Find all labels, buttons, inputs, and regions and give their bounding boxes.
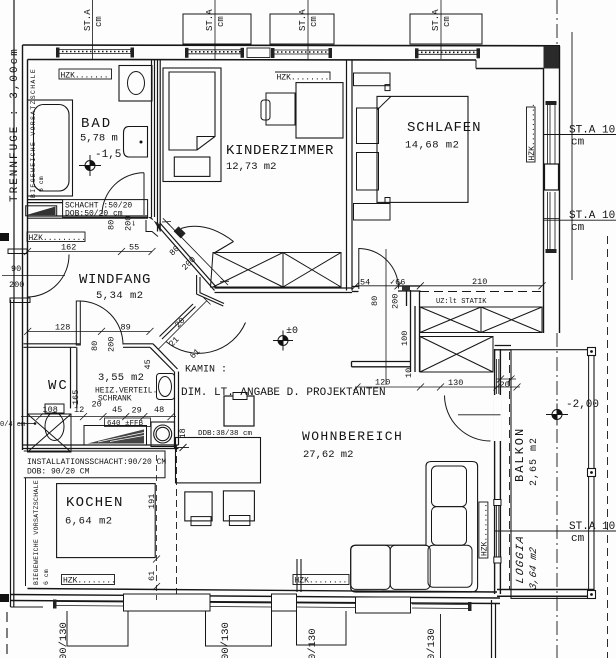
toilet WC (45, 404, 64, 441)
bottom roller box 3 (356, 597, 411, 613)
svg-text:12: 12 (74, 405, 84, 415)
svg-text:cm: cm (309, 16, 319, 27)
svg-text:100: 100 (400, 331, 410, 346)
svg-text:WC: WC (48, 378, 69, 394)
svg-text:HZK........: HZK........ (63, 577, 116, 586)
hatch wedge box near washer (84, 426, 147, 446)
svg-text:20: 20 (500, 380, 510, 390)
right outer wall upper column (544, 46, 560, 333)
svg-text:210: 210 (472, 277, 487, 287)
svg-text:89: 89 (121, 323, 131, 333)
left neighbour wall stub upper (8, 249, 27, 254)
washing machine (151, 422, 175, 447)
sofa cushion v1 (432, 466, 467, 507)
svg-text:0/130: 0/130 (307, 628, 319, 658)
Heiz east wall (175, 372, 179, 449)
dim diag line KZ door (162, 218, 229, 285)
svg-text:DOB: 90/20 CM: DOB: 90/20 CM (27, 468, 90, 477)
balcony rail post bottom (588, 591, 596, 599)
svg-text:cm: cm (442, 16, 452, 27)
svg-text:-1,5: -1,5 (95, 149, 121, 161)
svg-text:cm: cm (94, 16, 104, 27)
Windfang/WC wall west segment (24, 344, 81, 348)
svg-text:UZ:lt STATIK: UZ:lt STATIK (436, 298, 487, 306)
svg-text:61: 61 (147, 571, 157, 581)
hatch wedge box in BAD (26, 206, 57, 216)
balcony door leaf line (458, 414, 501, 416)
dresser Schlafen bottom (354, 198, 391, 221)
svg-text:3,55 m2: 3,55 m2 (98, 372, 144, 384)
vorsatzschale leaf kitchen (25, 478, 27, 586)
bottom wall window 3 (297, 603, 355, 608)
svg-text:45: 45 (112, 405, 122, 415)
svg-text:DIM. LT. ANGABE D. PROJEKTANTE: DIM. LT. ANGABE D. PROJEKTANTEN (181, 387, 386, 399)
svg-text:INSTALLATIONSSCHACHT:90/20 CM: INSTALLATIONSSCHACHT:90/20 CM (27, 458, 166, 467)
right margin dashed line (607, 236, 609, 658)
balcony door arc (445, 396, 491, 442)
svg-text:48: 48 (154, 405, 164, 415)
WC/Heiz wall (71, 347, 77, 408)
svg-text:90: 90 (11, 264, 21, 274)
svg-text:SCHRANK: SCHRANK (98, 395, 132, 404)
nightstand Schlafen lower (357, 153, 379, 191)
top axis box A (183, 14, 251, 44)
Kamin block (224, 396, 254, 426)
svg-text:27,62 m2: 27,62 m2 (303, 449, 353, 461)
left outer wall (23, 45, 28, 450)
balcony rail post mid (588, 469, 596, 477)
kitchen dim tick 2 (153, 583, 160, 590)
HZK radiator Schlafen (vertical) (527, 107, 536, 162)
bottom label line (440, 614, 442, 658)
diagonal wall to Heiz corner (150, 344, 178, 372)
right wall glazing above balcony door (496, 359, 498, 394)
sofa cushion h2 (390, 545, 430, 589)
svg-text:18: 18 (178, 428, 188, 438)
top outer wall (23, 45, 561, 69)
svg-text:3,64 m2: 3,64 m2 (529, 547, 540, 591)
bathtub (28, 100, 73, 196)
axis line window KZ2 (307, 0, 309, 59)
dining chair 1 (191, 517, 211, 526)
left neighbour wall stub lower (10, 298, 30, 303)
balcony rail post dots (590, 350, 593, 353)
dining chair 2 (229, 516, 250, 526)
toilet platform BAD (119, 66, 152, 102)
svg-text:0/4 cm: 0/4 cm (0, 421, 25, 429)
svg-text:SCHLAFEN: SCHLAFEN (407, 120, 481, 136)
svg-text:cm: cm (571, 137, 585, 149)
svg-text:120: 120 (375, 378, 390, 388)
svg-text:BIEGEWEICHE VORSATZSCHALE: BIEGEWEICHE VORSATZSCHALE (33, 480, 40, 585)
bottom-right descending wall (492, 600, 496, 658)
svg-text:0/130: 0/130 (426, 628, 438, 658)
svg-text:5,78 m: 5,78 m (80, 133, 118, 145)
corridor hatch band (211, 253, 342, 288)
Schlafen door arc (359, 249, 399, 289)
entry door dim line (2, 275, 65, 277)
svg-text:80: 80 (90, 341, 100, 351)
Kinderzimmer door leaf blob (174, 226, 186, 238)
Windfang north wall (28, 216, 149, 218)
svg-text:-2,00: -2,00 (566, 399, 599, 411)
bottom roller box 2 (272, 594, 297, 611)
svg-text:20: 20 (92, 400, 102, 410)
wall end step lines (146, 220, 158, 237)
wall segment mid (vert at 410) (407, 290, 420, 372)
balcony 20 tick (496, 376, 516, 383)
Windfang/WC wall east segment (123, 344, 153, 348)
diagonal wall NE of band (215, 242, 234, 253)
dining table 1 (185, 492, 212, 521)
top wall pier block between KZ windows (247, 48, 270, 58)
dim line WC row (21, 413, 176, 420)
dining table 2 (223, 491, 254, 521)
svg-text:HZK.........: HZK......... (29, 234, 87, 243)
svg-text:108: 108 (43, 405, 58, 415)
svg-text:HZK........: HZK........ (481, 503, 490, 556)
chair back Kinderzimmer (261, 100, 270, 120)
svg-text:80: 80 (107, 220, 117, 230)
dim dashed kitchen line (156, 455, 158, 600)
UZ hatch box 2 (420, 337, 493, 373)
Schlafen door post (402, 286, 410, 292)
toilet bowl BAD (128, 72, 145, 95)
desk Kinderzimmer (296, 83, 343, 138)
leader ST.A lower (495, 530, 616, 532)
wall horizontal at 364 (352, 362, 411, 367)
Kinderzimmer door arc (181, 226, 234, 241)
svg-text:✓66: ✓66 (390, 278, 405, 288)
svg-text:DDB:38/38 cm: DDB:38/38 cm (198, 430, 253, 438)
right wall window lower (544, 192, 560, 253)
BAD door arc (102, 173, 144, 214)
washbasin Heiz corner (157, 374, 175, 400)
Schlafen south wall west (352, 287, 359, 292)
balcony rail inner line (588, 350, 590, 599)
svg-text:ST.A 10: ST.A 10 (569, 125, 615, 137)
dresser Schlafen top (354, 73, 391, 91)
axis line window KZ1 (214, 0, 216, 59)
HZK radiator Kinderzimmer (275, 72, 330, 80)
svg-text:HZK.......: HZK....... (61, 72, 109, 81)
double bed Schlafen (377, 96, 468, 202)
svg-text:165: 165 (71, 390, 81, 405)
svg-text:LOGGIA: LOGGIA (515, 534, 527, 585)
svg-text:2,65 m2: 2,65 m2 (529, 437, 540, 486)
ST.A label top 2 (205, 9, 226, 31)
HZK radiator Wohnbereich right (vertical) (479, 502, 488, 558)
corridor diagonal wall (upper) (157, 223, 218, 291)
right margin solid line (571, 32, 573, 280)
svg-text:WINDFANG: WINDFANG (79, 272, 151, 288)
svg-text:29: 29 (132, 406, 142, 416)
svg-text:6 cm: 6 cm (38, 176, 45, 192)
svg-text:ST.A 10: ST.A 10 (569, 521, 615, 533)
bottom wall window 2 (210, 603, 271, 608)
BAD south wall (28, 200, 63, 203)
wall link to balcony slab (495, 346, 511, 350)
svg-text:200: 200 (9, 280, 24, 290)
island cross tick (177, 444, 189, 451)
svg-text:ST.A: ST.A (83, 9, 93, 31)
ST.A label top 1 (83, 9, 104, 31)
svg-text:KAMIN :: KAMIN : (185, 365, 227, 376)
wall stub right of kitchen (297, 559, 301, 592)
property line (Trennfuge) (13, 0, 15, 302)
wall below hatch band (215, 288, 353, 293)
svg-text:80: 80 (370, 296, 380, 306)
HZK radiator BAD (59, 69, 112, 79)
black joint tick (0, 233, 9, 241)
svg-text:KINDERZIMMER: KINDERZIMMER (226, 143, 334, 159)
black joint tick bottom (0, 594, 9, 602)
svg-text:DOB:50/20 cm: DOB:50/20 cm (65, 210, 123, 219)
svg-text:54: 54 (360, 278, 370, 288)
svg-text:6,64 m2: 6,64 m2 (65, 516, 113, 528)
svg-text:200: 200 (107, 337, 117, 352)
dim line 210 (420, 282, 545, 289)
WC shaft hatch box (28, 414, 72, 452)
level marker balcony (546, 404, 568, 426)
HZK radiator Kochen (62, 575, 115, 585)
bottom wall window kitchen (53, 600, 123, 609)
svg-text:BIEGEWEICHE-VORSATZSCHALE: BIEGEWEICHE-VORSATZSCHALE (30, 68, 37, 198)
dashed balcony front line (509, 352, 511, 589)
right wall pier block (545, 164, 559, 190)
HZK radiator Windfang (27, 232, 85, 242)
svg-text:±0: ±0 (286, 326, 298, 337)
UZ hatch box 1 (420, 307, 542, 333)
top axis box C (410, 14, 482, 44)
wall KINDERZIMMER/SCHLAFEN (347, 60, 353, 291)
bottom outer wall (11, 589, 501, 608)
Kamin top notch (233, 393, 247, 400)
HZK radiator Wohnbereich bottom (293, 575, 349, 585)
bottom hanging box 2 (206, 611, 272, 646)
svg-text:00/130: 00/130 (58, 622, 70, 658)
svg-text:HZK........: HZK........ (295, 577, 348, 586)
level marker BAD (79, 155, 101, 176)
Schacht box below BAD (63, 200, 148, 218)
svg-text:130: 130 (448, 378, 463, 388)
svg-text:ST.A: ST.A (205, 9, 215, 31)
Schlafen south wall east (398, 286, 421, 291)
svg-text:12,73 m2: 12,73 m2 (226, 161, 276, 173)
svg-text:BALKON: BALKON (513, 427, 527, 482)
right wall window lower part (494, 500, 501, 564)
svg-text:WOHNBEREICH: WOHNBEREICH (302, 429, 403, 444)
kitchen dim tick 1 (153, 556, 160, 563)
bottom hanging box 1 (67, 611, 128, 646)
kitchen room outline (57, 484, 156, 558)
svg-text:162: 162 (61, 243, 76, 253)
bottom hanging box 3 (297, 611, 347, 645)
bottom roller box 1 (124, 594, 211, 611)
svg-text:cm: cm (571, 222, 585, 234)
top-right corner block (544, 46, 560, 69)
corridor notch wall (197, 275, 224, 306)
kitchen divider dashed (176, 445, 178, 594)
sofa cushion v2 (432, 507, 467, 546)
balcony slab (511, 350, 594, 599)
lower left outer wall (10, 300, 12, 607)
right lower outer wall (Wohnbereich) (495, 349, 501, 594)
dim diag line lower door (155, 298, 211, 354)
bed Kinderzimmer (163, 68, 221, 182)
loggia bottom wall (497, 590, 594, 597)
svg-text:HZK........: HZK........ (277, 74, 330, 83)
svg-text:BAD: BAD (81, 116, 112, 132)
bottom wall window 4 (412, 602, 472, 611)
UZ statik dashed band (420, 292, 542, 308)
BAD door leaf (143, 173, 145, 215)
axis line window BAD (92, 0, 94, 59)
living room entry door leaf (160, 304, 196, 339)
balcony rail post top (588, 348, 596, 356)
Heiz/Kochen south wall (23, 445, 179, 449)
svg-text:6 cm: 6 cm (43, 569, 50, 585)
living room entry door arc (166, 323, 246, 354)
dim 640 FFB box (105, 418, 151, 427)
svg-text:cm: cm (571, 533, 585, 545)
ST.A label top 3 (298, 9, 319, 31)
installationsschacht box (24, 451, 165, 478)
sofa corner back (351, 462, 478, 593)
svg-text:14,68 m2: 14,68 m2 (405, 140, 459, 152)
right wall balcony door gap (494, 395, 502, 441)
dim line Windfang lower (24, 328, 153, 335)
top wall window BAD (56, 48, 134, 58)
Trennfuge dashes bottom (6, 612, 8, 658)
WC door leaf (76, 301, 80, 345)
top wall window SCHLAFEN (415, 48, 480, 58)
washbasin BAD (124, 127, 148, 158)
svg-text:cm: cm (216, 16, 226, 27)
svg-text:128: 128 (55, 323, 70, 333)
svg-text:ST.A: ST.A (298, 9, 308, 31)
svg-text:45: 45 (143, 359, 153, 369)
svg-text:TRENNFUGE : 3,00cm: TRENNFUGE : 3,00cm (9, 47, 21, 202)
svg-text:640 ±FFB: 640 ±FFB (107, 420, 144, 428)
dim vertical line at Schlafen door (385, 249, 387, 385)
svg-text:10: 10 (404, 368, 414, 378)
svg-text:55: 55 (129, 243, 139, 253)
ST.A label top 4 (431, 9, 452, 31)
top axis box B (270, 14, 334, 44)
axis dash-dot line right (556, 0, 558, 46)
svg-text:ST.A: ST.A (431, 9, 441, 31)
svg-text:200: 200 (391, 294, 401, 309)
sofa cushion h1 (351, 545, 391, 589)
dim line Windfang top (24, 248, 156, 255)
svg-text:ST.A 10: ST.A 10 (569, 210, 615, 222)
leader ST.A upper (544, 219, 616, 221)
top wall window KINDERZIMMER 1 (185, 48, 244, 58)
top wall window KINDERZIMMER 2 (271, 48, 332, 58)
dim line Schlafen door (352, 282, 424, 289)
WC door arc (80, 301, 123, 345)
svg-text:191: 191 (147, 494, 157, 509)
svg-text:HZK.........: HZK......... (528, 103, 537, 161)
axis line window Schlafen (440, 0, 442, 59)
Schlafen door leaf (358, 248, 360, 289)
entry door arc (28, 255, 70, 298)
level marker Windfang (273, 331, 293, 351)
svg-text:5,34 m2: 5,34 m2 (96, 290, 144, 302)
svg-text:00/130: 00/130 (220, 622, 232, 658)
wall BAD/KINDERZIMMER (152, 60, 161, 232)
sofa cushion corner (428, 545, 472, 587)
wall end wedge at KZ door (148, 217, 160, 232)
dim line 120/130 row (354, 384, 521, 391)
kitchen island (176, 438, 261, 483)
nightstand Schlafen upper (357, 108, 379, 144)
right wall window upper (544, 101, 560, 164)
svg-text:KOCHEN: KOCHEN (66, 495, 124, 511)
leader ST.A top (544, 134, 616, 136)
chair Kinderzimmer (266, 93, 295, 125)
